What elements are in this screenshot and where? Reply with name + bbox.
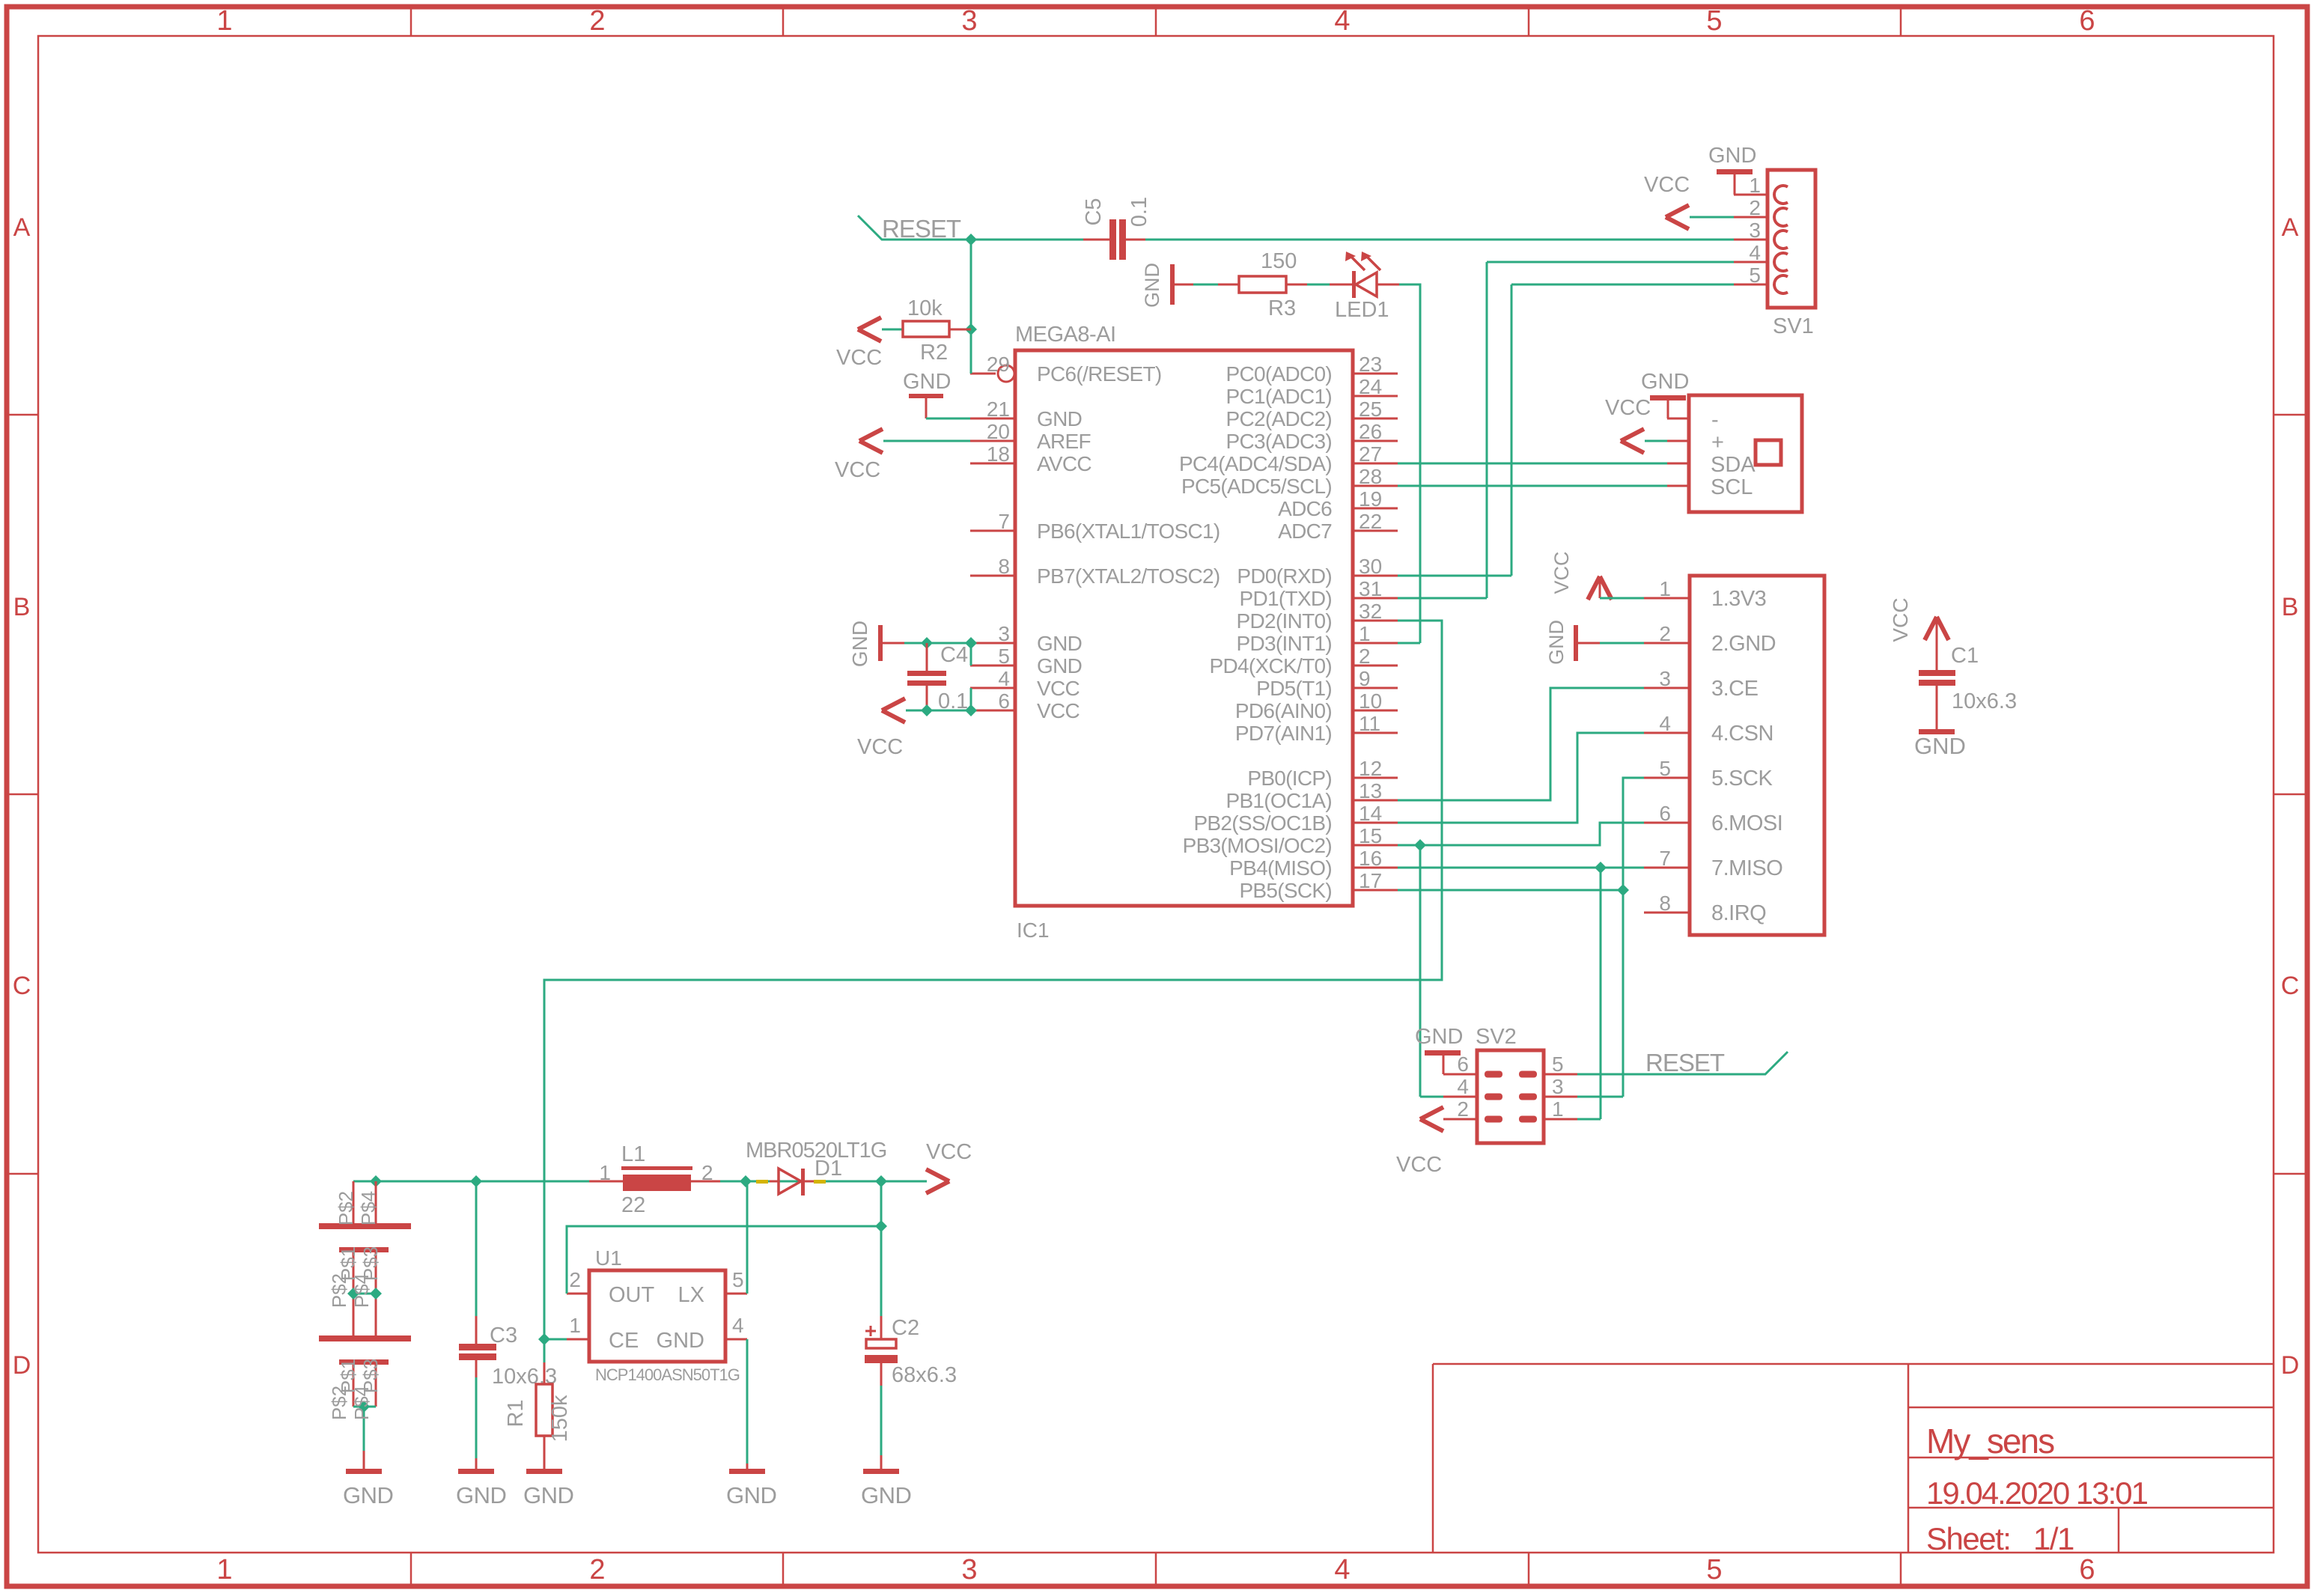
svg-text:A: A [13, 213, 31, 242]
svg-text:1: 1 [216, 5, 232, 37]
svg-text:10k: 10k [907, 296, 943, 320]
svg-text:PD0(RXD): PD0(RXD) [1237, 564, 1332, 588]
svg-text:GND: GND [1141, 263, 1163, 308]
svg-text:VCC: VCC [1605, 396, 1651, 420]
svg-text:3: 3 [1749, 219, 1761, 242]
svg-text:1: 1 [1749, 174, 1761, 197]
svg-text:C5: C5 [1082, 198, 1106, 225]
svg-text:RESET: RESET [1645, 1049, 1725, 1076]
svg-text:C3: C3 [490, 1324, 517, 1347]
svg-text:6: 6 [1457, 1053, 1469, 1076]
svg-text:5.SCK: 5.SCK [1711, 767, 1773, 791]
svg-text:PC6(/RESET): PC6(/RESET) [1037, 362, 1162, 386]
svg-text:GND: GND [1708, 144, 1756, 168]
svg-text:6: 6 [1659, 802, 1671, 825]
svg-text:L1: L1 [621, 1142, 645, 1166]
svg-text:PD1(TXD): PD1(TXD) [1239, 587, 1332, 610]
svg-text:AREF: AREF [1037, 430, 1091, 453]
svg-text:RESET: RESET [882, 215, 961, 243]
svg-text:PC0(ADC0): PC0(ADC0) [1225, 362, 1332, 386]
svg-text:6: 6 [2079, 1554, 2095, 1586]
svg-text:GND: GND [1914, 733, 1966, 759]
svg-text:4: 4 [1659, 712, 1671, 735]
svg-text:LX: LX [678, 1283, 704, 1307]
svg-text:U1: U1 [595, 1246, 622, 1270]
svg-text:PD7(AIN1): PD7(AIN1) [1235, 722, 1332, 745]
svg-text:PD4(XCK/T0): PD4(XCK/T0) [1210, 654, 1332, 677]
svg-text:C: C [13, 972, 31, 1000]
svg-text:PC1(ADC1): PC1(ADC1) [1225, 385, 1332, 408]
svg-text:A: A [2282, 213, 2299, 242]
svg-text:VCC: VCC [926, 1140, 972, 1164]
svg-text:GND: GND [726, 1482, 776, 1508]
svg-text:PB0(ICP): PB0(ICP) [1247, 767, 1332, 790]
svg-text:P$2: P$2 [328, 1386, 350, 1420]
svg-text:4: 4 [1334, 5, 1350, 37]
svg-text:GND: GND [1641, 370, 1689, 394]
svg-text:6: 6 [2079, 5, 2095, 37]
svg-text:PB7(XTAL2/TOSC2): PB7(XTAL2/TOSC2) [1037, 564, 1220, 588]
svg-text:MEGA8-AI: MEGA8-AI [1015, 323, 1116, 347]
svg-text:PC4(ADC4/SDA): PC4(ADC4/SDA) [1179, 452, 1332, 475]
svg-text:VCC: VCC [1037, 699, 1080, 722]
svg-text:2: 2 [1359, 645, 1371, 668]
svg-text:VCC: VCC [1037, 677, 1080, 700]
svg-text:7: 7 [998, 510, 1010, 533]
svg-text:1: 1 [1552, 1097, 1564, 1121]
svg-text:5: 5 [1706, 1554, 1722, 1586]
svg-text:24: 24 [1359, 375, 1382, 398]
svg-text:4: 4 [1457, 1075, 1469, 1098]
svg-text:5: 5 [998, 645, 1010, 668]
svg-text:3: 3 [961, 1554, 977, 1586]
svg-text:19: 19 [1359, 487, 1382, 511]
svg-text:4: 4 [732, 1314, 744, 1337]
svg-text:B: B [2282, 593, 2299, 621]
svg-text:1: 1 [569, 1314, 581, 1337]
svg-text:GND: GND [903, 370, 951, 394]
svg-text:SV2: SV2 [1476, 1025, 1517, 1049]
svg-text:13: 13 [1359, 779, 1382, 802]
svg-text:6: 6 [998, 689, 1010, 713]
svg-text:PB3(MOSI/OC2): PB3(MOSI/OC2) [1183, 834, 1332, 857]
svg-text:R3: R3 [1268, 296, 1296, 320]
svg-text:27: 27 [1359, 442, 1382, 466]
svg-text:32: 32 [1359, 600, 1382, 623]
svg-text:21: 21 [987, 398, 1010, 421]
svg-text:3: 3 [1659, 667, 1671, 690]
svg-text:C: C [2281, 972, 2300, 1000]
svg-text:18: 18 [987, 442, 1010, 466]
svg-text:1.3V3: 1.3V3 [1711, 587, 1766, 611]
svg-text:SCL: SCL [1711, 475, 1753, 499]
svg-text:7.MISO: 7.MISO [1711, 856, 1782, 880]
svg-text:16: 16 [1359, 847, 1382, 870]
svg-text:150k: 150k [548, 1395, 572, 1442]
svg-text:PC3(ADC3): PC3(ADC3) [1225, 430, 1332, 453]
svg-text:22: 22 [1359, 510, 1382, 533]
svg-text:-: - [1711, 408, 1719, 432]
svg-text:NCP1400ASN50T1G: NCP1400ASN50T1G [595, 1365, 740, 1384]
svg-text:6.MOSI: 6.MOSI [1711, 811, 1782, 835]
svg-text:5: 5 [1749, 264, 1761, 287]
svg-text:GND: GND [1545, 620, 1568, 665]
svg-text:23: 23 [1359, 353, 1382, 376]
svg-text:150: 150 [1261, 249, 1297, 273]
svg-text:PD3(INT1): PD3(INT1) [1237, 632, 1333, 655]
svg-text:4: 4 [1749, 241, 1761, 264]
svg-text:4.CSN: 4.CSN [1711, 722, 1773, 746]
svg-text:GND: GND [657, 1329, 704, 1353]
svg-text:15: 15 [1359, 824, 1382, 847]
svg-text:3.CE: 3.CE [1711, 677, 1759, 701]
svg-text:68x6.3: 68x6.3 [892, 1363, 957, 1387]
svg-text:OUT: OUT [609, 1283, 655, 1307]
svg-text:GND: GND [343, 1482, 393, 1508]
svg-text:PC5(ADC5/SCL): PC5(ADC5/SCL) [1181, 475, 1332, 498]
svg-text:14: 14 [1359, 802, 1382, 825]
svg-text:VCC: VCC [1550, 551, 1573, 594]
svg-text:5: 5 [1706, 5, 1722, 37]
svg-text:C4: C4 [940, 643, 968, 667]
svg-text:D: D [13, 1351, 31, 1380]
svg-text:B: B [13, 593, 31, 621]
svg-text:2: 2 [569, 1268, 581, 1291]
svg-text:ADC6: ADC6 [1278, 497, 1332, 520]
svg-text:1: 1 [1659, 577, 1671, 600]
svg-text:LED1: LED1 [1335, 298, 1389, 322]
svg-text:25: 25 [1359, 398, 1382, 421]
svg-text:11: 11 [1359, 712, 1380, 735]
svg-text:GND: GND [1037, 632, 1082, 655]
svg-text:5: 5 [732, 1268, 744, 1291]
svg-text:VCC: VCC [1644, 173, 1690, 197]
svg-text:D1: D1 [815, 1157, 842, 1181]
svg-text:1: 1 [216, 1554, 232, 1586]
svg-text:29: 29 [987, 353, 1010, 376]
svg-text:My_sens: My_sens [1926, 1422, 2054, 1461]
svg-text:GND: GND [1037, 654, 1082, 677]
svg-text:VCC: VCC [857, 735, 903, 759]
svg-text:4: 4 [1334, 1554, 1350, 1586]
svg-text:10: 10 [1359, 689, 1382, 713]
svg-text:CE: CE [609, 1329, 639, 1353]
svg-text:2: 2 [1749, 196, 1761, 219]
svg-text:12: 12 [1359, 757, 1382, 780]
svg-text:SV1: SV1 [1773, 314, 1814, 338]
svg-text:3: 3 [961, 5, 977, 37]
svg-text:PB6(XTAL1/TOSC1): PB6(XTAL1/TOSC1) [1037, 520, 1220, 543]
svg-text:GND: GND [861, 1482, 911, 1508]
svg-text:2: 2 [1457, 1097, 1469, 1121]
svg-text:PD5(T1): PD5(T1) [1256, 677, 1332, 700]
svg-text:8.IRQ: 8.IRQ [1711, 901, 1766, 925]
svg-text:ADC7: ADC7 [1278, 520, 1332, 543]
svg-text:PB5(SCK): PB5(SCK) [1239, 879, 1332, 902]
svg-text:3: 3 [998, 622, 1010, 645]
svg-text:2: 2 [589, 1554, 605, 1586]
svg-text:R2: R2 [920, 341, 948, 365]
svg-text:PB4(MISO): PB4(MISO) [1229, 856, 1332, 880]
svg-text:26: 26 [1359, 420, 1382, 443]
svg-text:GND: GND [1415, 1025, 1463, 1049]
svg-text:PD6(AIN0): PD6(AIN0) [1235, 699, 1332, 722]
svg-text:AVCC: AVCC [1037, 452, 1091, 475]
svg-text:GND: GND [1037, 407, 1082, 430]
svg-text:8: 8 [1659, 892, 1671, 915]
svg-text:0.1: 0.1 [1127, 197, 1151, 227]
svg-text:1: 1 [1359, 622, 1371, 645]
svg-text:28: 28 [1359, 465, 1382, 488]
svg-text:2.GND: 2.GND [1711, 632, 1776, 656]
svg-text:SDA: SDA [1711, 453, 1756, 477]
svg-text:PB2(SS/OC1B): PB2(SS/OC1B) [1193, 811, 1332, 835]
svg-text:GND: GND [523, 1482, 573, 1508]
svg-text:22: 22 [621, 1193, 645, 1217]
svg-text:PD2(INT0): PD2(INT0) [1237, 609, 1333, 633]
svg-text:C2: C2 [892, 1316, 919, 1340]
svg-text:4: 4 [998, 667, 1010, 690]
svg-text:Sheet:: Sheet: [1926, 1521, 2010, 1556]
svg-text:R1: R1 [504, 1399, 528, 1427]
svg-text:P$4: P$4 [350, 1273, 373, 1308]
svg-text:30: 30 [1359, 555, 1382, 578]
svg-text:D: D [2281, 1351, 2300, 1380]
svg-text:VCC: VCC [1396, 1153, 1442, 1177]
svg-text:P$4: P$4 [350, 1386, 373, 1420]
svg-text:GND: GND [456, 1482, 506, 1508]
svg-text:P$4: P$4 [357, 1191, 380, 1225]
svg-text:P$2: P$2 [335, 1191, 357, 1225]
svg-text:VCC: VCC [836, 346, 882, 370]
svg-text:PC2(ADC2): PC2(ADC2) [1225, 407, 1332, 430]
svg-text:7: 7 [1659, 847, 1671, 870]
svg-text:5: 5 [1659, 757, 1671, 780]
svg-text:VCC: VCC [835, 458, 880, 482]
svg-text:2: 2 [589, 5, 605, 37]
svg-text:IC1: IC1 [1017, 919, 1050, 942]
svg-text:PB1(OC1A): PB1(OC1A) [1225, 789, 1332, 812]
svg-text:17: 17 [1359, 869, 1382, 892]
svg-text:GND: GND [848, 621, 871, 667]
svg-text:1/1: 1/1 [2033, 1521, 2074, 1556]
svg-text:P$2: P$2 [328, 1273, 350, 1308]
svg-text:+: + [1711, 430, 1724, 454]
svg-text:8: 8 [998, 555, 1010, 578]
svg-text:31: 31 [1359, 577, 1382, 600]
svg-text:19.04.2020 13:01: 19.04.2020 13:01 [1926, 1475, 2148, 1511]
svg-text:9: 9 [1359, 667, 1371, 690]
svg-text:VCC: VCC [1889, 597, 1912, 642]
svg-text:20: 20 [987, 420, 1010, 443]
svg-text:5: 5 [1552, 1053, 1564, 1076]
svg-text:2: 2 [1659, 622, 1671, 645]
svg-text:3: 3 [1552, 1075, 1564, 1098]
svg-text:10x6.3: 10x6.3 [1952, 689, 2017, 713]
svg-text:C1: C1 [1951, 644, 1979, 668]
